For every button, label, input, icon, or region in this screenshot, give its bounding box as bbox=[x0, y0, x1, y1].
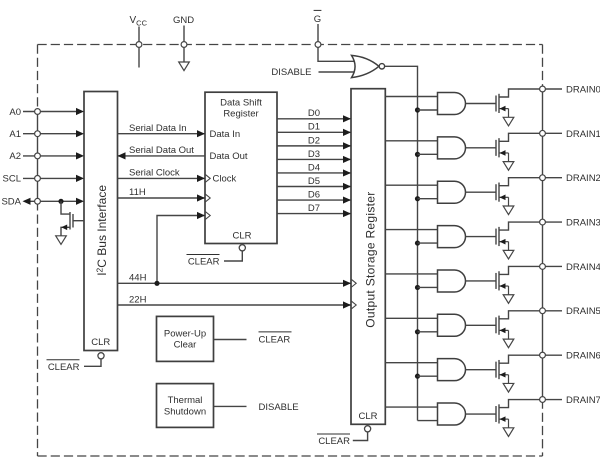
transistor Q1 bbox=[495, 140, 497, 156]
node A2 bbox=[35, 153, 41, 159]
node SDA bbox=[35, 198, 41, 204]
svg-text:G: G bbox=[314, 14, 321, 25]
svg-text:GND: GND bbox=[173, 15, 194, 26]
svg-text:A1: A1 bbox=[9, 129, 21, 140]
ground Q4 source bbox=[503, 295, 514, 304]
wire AND2 output to Q2 gate bbox=[466, 191, 497, 193]
node DRAIN6 bbox=[540, 352, 546, 358]
wire storage register bit 5 to AND gate bbox=[385, 317, 437, 319]
wire G-bar to NOR input bbox=[318, 47, 356, 61]
wire SCL to I2C interface bbox=[23, 177, 77, 179]
junction 44H riser bbox=[154, 281, 159, 286]
svg-text:Register: Register bbox=[223, 109, 258, 120]
ground Q9 source bbox=[56, 236, 67, 245]
svg-text:A0: A0 bbox=[9, 107, 21, 118]
svg-text:Serial Clock: Serial Clock bbox=[129, 168, 180, 179]
svg-text:11H: 11H bbox=[129, 187, 146, 198]
transistor Q3 bbox=[495, 229, 497, 245]
svg-text:DRAIN7: DRAIN7 bbox=[566, 395, 600, 406]
wire Power-Up Clear output bbox=[214, 339, 247, 341]
svg-text:DRAIN3: DRAIN3 bbox=[566, 217, 600, 228]
wire A2 to I2C interface bbox=[23, 155, 77, 157]
wire Serial Data In net bbox=[118, 133, 206, 135]
svg-text:D6: D6 bbox=[308, 189, 320, 200]
package boundary dashed border bbox=[38, 45, 543, 457]
wire Q9 gate from I2C interface bbox=[73, 220, 84, 222]
wire GND stub bbox=[183, 26, 185, 63]
transistor Q5 bbox=[495, 317, 497, 333]
junction NOR net / AND4 bbox=[415, 285, 420, 290]
junction NOR net / AND2 bbox=[415, 196, 420, 201]
svg-text:Output Storage Register: Output Storage Register bbox=[364, 191, 378, 327]
svg-text:Data Out: Data Out bbox=[210, 151, 248, 162]
svg-text:Data In: Data In bbox=[210, 129, 241, 140]
wire DSR CLR to CLEAR net bbox=[224, 251, 242, 261]
svg-text:D7: D7 bbox=[308, 203, 320, 214]
svg-text:Clear: Clear bbox=[174, 340, 197, 351]
ground Q0 source bbox=[503, 117, 514, 126]
node GND bbox=[181, 42, 187, 48]
wire DISABLE to NOR input bbox=[319, 71, 357, 73]
junction NOR net / AND6 bbox=[415, 374, 420, 379]
wire D1 net bbox=[277, 131, 351, 133]
wire DRAIN5 stub bbox=[545, 310, 562, 312]
svg-text:22H: 22H bbox=[129, 294, 147, 305]
wire storage register bit 6 to AND gate bbox=[385, 362, 437, 364]
wire NOR output net bbox=[385, 66, 418, 420]
wire Thermal Shutdown output bbox=[214, 405, 247, 407]
AND gate A3 bbox=[438, 226, 466, 248]
wire DRAIN3 stub bbox=[545, 221, 562, 223]
wire NOR net to AND gate 1 bbox=[418, 153, 438, 155]
svg-text:DRAIN1: DRAIN1 bbox=[566, 129, 600, 140]
svg-text:CLR: CLR bbox=[358, 411, 377, 422]
NOR gate U1 bbox=[352, 55, 379, 77]
ground Q6 source bbox=[503, 383, 514, 392]
block Power-Up Clear bbox=[157, 316, 214, 361]
bubble OSR CLR bbox=[365, 426, 371, 432]
AND gate A6 bbox=[438, 359, 466, 381]
wire storage register bit 4 to AND gate bbox=[385, 273, 437, 275]
wire D2 net bbox=[277, 145, 351, 147]
wire NOR net to AND gate 4 bbox=[418, 286, 438, 288]
wire VCC stub bbox=[138, 27, 140, 68]
svg-text:DRAIN2: DRAIN2 bbox=[566, 173, 600, 184]
svg-text:DRAIN5: DRAIN5 bbox=[566, 306, 600, 317]
node DRAIN1 bbox=[540, 130, 546, 136]
AND gate A7 bbox=[438, 403, 466, 425]
junction NOR net / AND1 bbox=[415, 152, 420, 157]
wire NOR net to AND gate 5 bbox=[418, 331, 438, 333]
junction NOR net / AND5 bbox=[415, 329, 420, 334]
wire DRAIN2 stub bbox=[545, 177, 562, 179]
wire D3 net bbox=[277, 158, 351, 160]
junction SDA node bbox=[58, 199, 63, 204]
svg-text:CLEAR: CLEAR bbox=[318, 436, 350, 447]
wire D4 net bbox=[277, 172, 351, 174]
wire AND0 output to Q0 gate bbox=[466, 103, 497, 105]
block Data Shift Register bbox=[205, 92, 277, 243]
node DRAIN0 bbox=[540, 86, 546, 92]
node VCC bbox=[136, 42, 142, 48]
wire A0 to I2C interface bbox=[23, 111, 77, 113]
AND gate A4 bbox=[438, 270, 466, 292]
svg-text:Serial Data In: Serial Data In bbox=[129, 123, 187, 134]
block Output Storage Register bbox=[351, 89, 385, 425]
AND gate A1 bbox=[438, 137, 466, 159]
wire Serial Data Out net bbox=[118, 155, 206, 157]
wire AND3 output to Q3 gate bbox=[466, 236, 497, 238]
svg-text:Serial Data Out: Serial Data Out bbox=[129, 145, 194, 156]
wire 44H net bbox=[118, 282, 352, 284]
wire AND7 output to Q7 gate bbox=[466, 413, 497, 415]
node DRAIN2 bbox=[540, 175, 546, 181]
bubble I2C CLR bbox=[98, 353, 104, 359]
transistor Q7 bbox=[495, 406, 497, 422]
wire AND1 output to Q1 gate bbox=[466, 147, 497, 149]
wire DRAIN6 stub bbox=[545, 354, 562, 356]
svg-text:44H: 44H bbox=[129, 273, 147, 284]
wire AND4 output to Q4 gate bbox=[466, 280, 497, 282]
transistor Q0 bbox=[495, 96, 497, 112]
svg-text:I2C Bus Interface: I2C Bus Interface bbox=[94, 185, 108, 276]
svg-text:D3: D3 bbox=[308, 149, 320, 160]
wire I2C CLR to CLEAR net bbox=[84, 359, 101, 366]
ground Q5 source bbox=[503, 339, 514, 348]
svg-text:D0: D0 bbox=[308, 108, 320, 119]
node G-bar bbox=[315, 42, 321, 48]
svg-text:D4: D4 bbox=[308, 162, 320, 173]
wire 44H riser to shift register bbox=[157, 216, 205, 284]
svg-text:A2: A2 bbox=[9, 151, 21, 162]
wire DRAIN7 stub bbox=[545, 399, 562, 401]
svg-text:DRAIN0: DRAIN0 bbox=[566, 84, 600, 95]
wire DRAIN0 stub bbox=[545, 88, 562, 90]
junction NOR net / AND3 bbox=[415, 240, 420, 245]
node SCL bbox=[35, 176, 41, 182]
wire NOR net to AND gate 0 bbox=[418, 109, 438, 111]
wire D7 net bbox=[277, 213, 351, 215]
wire right drain terminal column bbox=[542, 89, 544, 400]
svg-text:CLEAR: CLEAR bbox=[188, 257, 220, 268]
wire DRAIN1 stub bbox=[545, 132, 562, 134]
transistor Q6 bbox=[495, 362, 497, 378]
wire OSR CLR to CLEAR net bbox=[353, 432, 368, 441]
junction NOR net / AND0 bbox=[415, 107, 420, 112]
svg-text:Power-Up: Power-Up bbox=[164, 328, 206, 339]
AND gate A2 bbox=[438, 181, 466, 203]
wire storage register bit 1 to AND gate bbox=[385, 140, 437, 142]
svg-text:CLEAR: CLEAR bbox=[259, 335, 291, 346]
svg-text:DRAIN4: DRAIN4 bbox=[566, 262, 600, 273]
svg-text:CLR: CLR bbox=[91, 337, 110, 348]
svg-text:CLEAR: CLEAR bbox=[48, 362, 80, 373]
wire 11H net bbox=[118, 197, 206, 199]
svg-text:D2: D2 bbox=[308, 135, 320, 146]
ground Q7 source bbox=[503, 428, 514, 437]
wire Serial Clock net bbox=[118, 177, 206, 179]
wire D6 net bbox=[277, 199, 351, 201]
wire NOR net to AND gate 2 bbox=[418, 198, 438, 200]
svg-text:Clock: Clock bbox=[213, 174, 237, 185]
wire AND5 output to Q5 gate bbox=[466, 324, 497, 326]
svg-text:Shutdown: Shutdown bbox=[164, 406, 206, 417]
wire NOR net to AND gate 6 bbox=[418, 375, 438, 377]
ground GND symbol bbox=[179, 62, 190, 71]
wire 22H net bbox=[118, 304, 352, 306]
wire DRAIN4 stub bbox=[545, 265, 562, 267]
wire D0 net bbox=[277, 118, 351, 120]
wire NOR net to AND gate 7 bbox=[418, 420, 438, 422]
node DRAIN3 bbox=[540, 219, 546, 225]
node A1 bbox=[35, 131, 41, 137]
ground Q2 source bbox=[503, 206, 514, 215]
wire A1 to I2C interface bbox=[23, 133, 77, 135]
bidirectional arrow on SDA bbox=[23, 198, 31, 205]
svg-text:DISABLE: DISABLE bbox=[271, 67, 311, 78]
svg-text:CLR: CLR bbox=[232, 230, 251, 241]
wire storage register bit 2 to AND gate bbox=[385, 184, 437, 186]
wire storage register bit 3 to AND gate bbox=[385, 229, 437, 231]
transistor Q4 bbox=[495, 273, 497, 289]
wire NOR net to AND gate 3 bbox=[418, 242, 438, 244]
wire G-bar stub bbox=[317, 24, 319, 42]
svg-text:D1: D1 bbox=[308, 122, 320, 133]
wire D5 net bbox=[277, 186, 351, 188]
ground Q1 source bbox=[503, 162, 514, 171]
wire AND6 output to Q6 gate bbox=[466, 369, 497, 371]
svg-text:Data Shift: Data Shift bbox=[220, 97, 262, 108]
ground Q3 source bbox=[503, 250, 514, 259]
block I2C Bus Interface bbox=[84, 92, 118, 351]
node DRAIN7 bbox=[540, 397, 546, 403]
transistor Q2 bbox=[495, 184, 497, 200]
svg-text:SDA: SDA bbox=[1, 197, 21, 208]
svg-text:DRAIN6: DRAIN6 bbox=[566, 351, 600, 362]
AND gate A0 bbox=[438, 93, 466, 115]
wire storage register bit 0 to AND gate bbox=[385, 96, 437, 98]
block Thermal Shutdown bbox=[157, 384, 214, 428]
node DRAIN4 bbox=[540, 264, 546, 270]
svg-text:D5: D5 bbox=[308, 176, 320, 187]
svg-text:SCL: SCL bbox=[3, 174, 21, 185]
transistor Q9 SDA driver bbox=[61, 201, 70, 214]
wire left terminal column bbox=[37, 112, 39, 202]
svg-text:DISABLE: DISABLE bbox=[259, 402, 299, 413]
wire SDA to I2C interface bbox=[29, 200, 77, 202]
wire storage register bit 7 to AND gate bbox=[385, 406, 437, 408]
bubble DSR CLR bbox=[239, 245, 245, 251]
svg-text:Thermal: Thermal bbox=[168, 395, 203, 406]
AND gate A5 bbox=[438, 314, 466, 336]
node A0 bbox=[35, 109, 41, 115]
node DRAIN5 bbox=[540, 308, 546, 314]
